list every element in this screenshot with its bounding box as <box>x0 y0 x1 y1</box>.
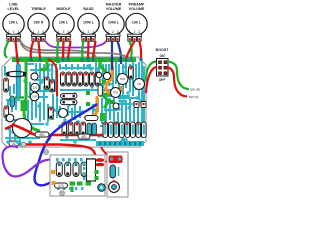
svg-text:3: 3 <box>117 30 119 34</box>
svg-text:TREBLE: TREBLE <box>31 7 46 11</box>
svg-text:MASTER: MASTER <box>106 3 122 7</box>
svg-text:2: 2 <box>63 30 65 34</box>
svg-text:2N: 2N <box>137 82 141 86</box>
svg-text:220: 220 <box>33 86 38 90</box>
svg-text:VOLUME: VOLUME <box>106 7 122 11</box>
svg-text:2: 2 <box>88 30 90 34</box>
svg-text:1: 1 <box>107 30 109 34</box>
svg-text:VOLUME: VOLUME <box>129 7 145 11</box>
svg-text:TR3: TR3 <box>113 91 119 95</box>
svg-text:ON: ON <box>159 54 165 58</box>
svg-text:BOOST: BOOST <box>156 48 170 52</box>
svg-text:1: 1 <box>58 30 60 34</box>
svg-text:SW (R): SW (R) <box>190 88 200 92</box>
svg-text:470: 470 <box>58 184 64 188</box>
svg-text:3: 3 <box>17 30 19 34</box>
svg-text:4R1: 4R1 <box>39 133 45 137</box>
svg-text:1: 1 <box>33 30 35 34</box>
svg-text:3: 3 <box>42 30 44 34</box>
svg-text:100: 100 <box>32 95 37 99</box>
svg-text:PREAMP: PREAMP <box>129 3 145 7</box>
svg-text:2: 2 <box>134 30 136 34</box>
svg-text:2: 2 <box>112 30 114 34</box>
svg-text:TR2: TR2 <box>120 77 126 81</box>
svg-text:4R1: 4R1 <box>81 135 87 139</box>
svg-text:1: 1 <box>129 30 131 34</box>
svg-text:2: 2 <box>13 30 15 34</box>
svg-text:100K L: 100K L <box>83 21 94 25</box>
svg-text:SW (S): SW (S) <box>189 95 199 99</box>
svg-text:LINE: LINE <box>9 3 18 7</box>
svg-text:3: 3 <box>138 30 140 34</box>
svg-text:1: 1 <box>83 30 85 34</box>
svg-text:20K R: 20K R <box>34 21 44 25</box>
svg-text:3: 3 <box>67 30 69 34</box>
svg-text:LEVEL: LEVEL <box>8 7 21 11</box>
svg-text:2: 2 <box>38 30 40 34</box>
svg-text:3: 3 <box>92 30 94 34</box>
svg-text:10K L: 10K L <box>9 21 18 25</box>
svg-text:10K L: 10K L <box>59 21 68 25</box>
svg-text:OFF: OFF <box>159 78 166 82</box>
svg-text:10K L: 10K L <box>132 21 141 25</box>
svg-text:MIDDLE: MIDDLE <box>56 7 71 11</box>
svg-text:1: 1 <box>8 30 10 34</box>
svg-text:BASS: BASS <box>83 7 94 11</box>
svg-text:100K L: 100K L <box>108 21 119 25</box>
